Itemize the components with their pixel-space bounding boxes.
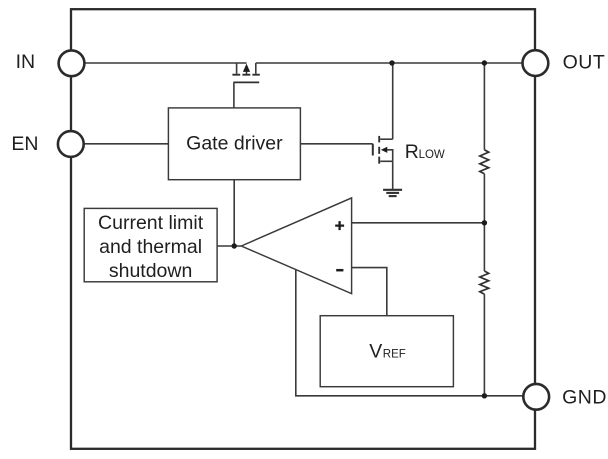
wire Q2 source to ground xyxy=(392,161,394,190)
wire U1 plus input to feedback node xyxy=(352,222,485,224)
svg-text:Current limit: Current limit xyxy=(98,212,204,234)
pin GND xyxy=(523,384,549,410)
wire R2 to GND rail xyxy=(483,294,485,396)
wire Q1 gate to gate driver xyxy=(233,82,235,108)
wire U1 to GND rail xyxy=(296,270,524,396)
block U2 gate driver xyxy=(168,108,300,180)
pin label OUT xyxy=(563,52,606,74)
pin OUT xyxy=(523,50,549,76)
svg-text:R: R xyxy=(405,141,419,163)
wire gate driver to Q2 gate xyxy=(300,143,372,145)
wire Q1 drain to OUT xyxy=(256,62,523,64)
op-amp U1 error amplifier xyxy=(241,198,351,294)
node feedback junction xyxy=(482,220,487,225)
node Q2 drain junction xyxy=(389,60,394,65)
pin label IN xyxy=(16,51,35,73)
node GND junction xyxy=(482,393,487,398)
ground xyxy=(383,190,402,196)
svg-text:EN: EN xyxy=(11,133,38,155)
chip boundary xyxy=(71,9,535,449)
svg-text:shutdown: shutdown xyxy=(109,260,192,282)
svg-text:REF: REF xyxy=(383,348,406,360)
transistor Q2 RLOW NMOS xyxy=(373,136,393,164)
block current limit and thermal shutdown xyxy=(84,208,217,282)
wire U1 minus input to VREF xyxy=(352,268,387,316)
wire OUT rail to R1 xyxy=(483,63,485,150)
resistor R2 xyxy=(480,271,489,294)
wire gate driver to error amp output node xyxy=(233,180,235,246)
pin EN xyxy=(58,131,84,157)
resistor R1 xyxy=(480,150,489,174)
wire EN to gate driver xyxy=(84,143,169,145)
pin label EN xyxy=(11,133,38,155)
svg-text:OUT: OUT xyxy=(563,52,606,74)
pin IN xyxy=(59,50,85,76)
wire current limit block to amp output node xyxy=(217,245,241,247)
svg-text:GND: GND xyxy=(562,387,607,409)
transistor Q1 PMOS pass element xyxy=(232,63,259,82)
wire R1 to R2 xyxy=(483,174,485,271)
svg-text:IN: IN xyxy=(16,51,35,73)
svg-text:LOW: LOW xyxy=(419,149,445,161)
node OUT R1 junction xyxy=(482,60,487,65)
svg-text:Gate driver: Gate driver xyxy=(186,133,283,155)
svg-text:and thermal: and thermal xyxy=(99,236,202,258)
node amp output junction xyxy=(232,243,237,248)
block VREF xyxy=(320,316,453,387)
wire Q2 drain to OUT rail xyxy=(392,63,394,139)
svg-text:V: V xyxy=(369,340,382,362)
pin label GND xyxy=(562,387,607,409)
wire IN to Q1 source xyxy=(85,62,247,64)
label RLOW xyxy=(405,141,445,163)
